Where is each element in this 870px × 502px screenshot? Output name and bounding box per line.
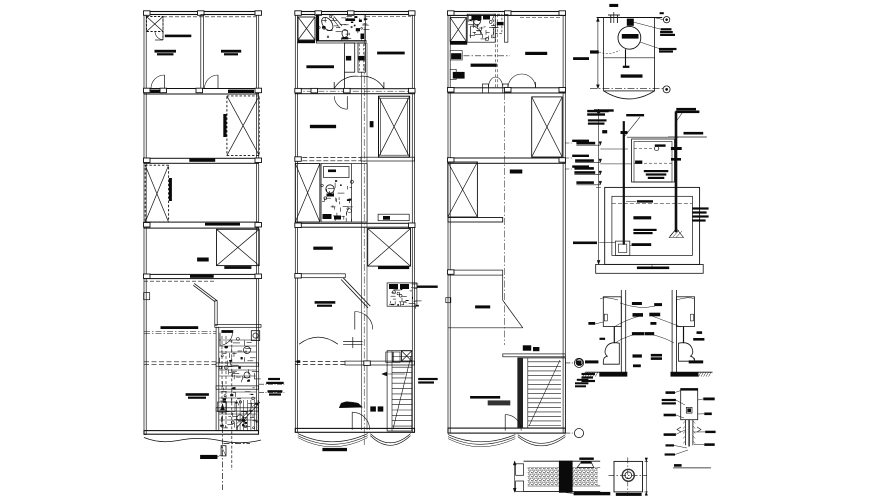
plan 3 ref circle bottom	[565, 429, 583, 438]
plan 2 outer walls	[295, 12, 414, 433]
plan 3 wall band 1	[448, 88, 566, 94]
plan 1 wall band 4	[144, 274, 262, 279]
tinaco float ball	[618, 26, 641, 49]
registro plan circle	[622, 469, 634, 481]
plan 3 roof terrace lines	[448, 275, 523, 328]
tinaco ref circle top	[654, 17, 670, 23]
wall section speckle hatch right	[573, 468, 598, 486]
tinaco valve on top	[627, 19, 634, 26]
cistern dim line	[596, 109, 601, 264]
plan 2 left wall tick	[297, 360, 301, 363]
plan 2 corridor verticals	[361, 14, 367, 445]
cistern bottom-left label	[573, 242, 615, 245]
plan 1 outer walls	[144, 12, 259, 435]
cistern left pipe	[623, 121, 625, 245]
plan 2 duct 2	[358, 43, 366, 72]
plan 1 left x-box	[145, 165, 168, 222]
plan 1 2pl label	[197, 258, 209, 262]
plan 1 right outside label 1	[259, 378, 284, 384]
plan 1 plumbing cluster	[219, 336, 261, 431]
plan 2 left room2 label	[310, 125, 336, 128]
plan 1 service band a	[216, 363, 258, 366]
plan 3 ref circle top	[565, 358, 583, 367]
plan 1 mid dashed wall	[144, 362, 216, 365]
tinaco ja label	[609, 4, 618, 7]
plan 1 wall band 3	[144, 222, 262, 228]
plan 2 stair top boxes	[386, 352, 400, 362]
plan 3 dashed beam top right	[520, 17, 562, 19]
tinaco left label tapa	[590, 50, 620, 54]
plan 2 door arc bottom	[352, 412, 370, 430]
registro pipe down	[683, 420, 695, 447]
wall section left brackets	[513, 461, 523, 492]
plan 3 x-box right	[532, 97, 563, 157]
plan 1 water feed centerline	[221, 404, 225, 490]
plan 1 comedor dash-dot line	[144, 332, 216, 334]
plan 1 stairs bottom right	[237, 400, 261, 431]
plan 3 bath2 label	[471, 64, 497, 67]
plan 1 door recamara 1	[151, 75, 165, 89]
plan 2 bathroom outline	[316, 15, 365, 42]
cistern upper tank text	[644, 170, 669, 179]
wc left ref circle	[576, 359, 598, 366]
plan 3 bay curves left	[448, 435, 515, 447]
plan 1 acometida label	[200, 455, 221, 459]
plan 3 stair fixtures	[523, 345, 540, 351]
plan 3 stairs	[518, 358, 566, 428]
plan 2 bay label	[322, 448, 347, 451]
plan 3 wall band below x-box	[448, 218, 503, 223]
tinaco right labels	[633, 12, 675, 36]
plan 3 band2 label	[510, 170, 523, 174]
plan 2 lower-left x-box	[295, 164, 320, 223]
wc middle labels	[632, 302, 662, 367]
plan 1 right outside label 2	[259, 390, 284, 395]
plan 2 wall band 1	[295, 88, 415, 93]
plan 2 corridor door arc	[334, 96, 347, 109]
tinaco lower label	[621, 74, 643, 77]
plan 1 left wall niche	[144, 293, 150, 300]
plan 2 bathroom wall thick	[316, 15, 319, 41]
plan 3 bathroom door arc	[471, 26, 483, 38]
plan 1 recamara1 label	[155, 50, 177, 56]
wc left tapa label	[588, 322, 603, 325]
plan 1 closet x-box	[147, 17, 164, 32]
plan 2 balcony ledge	[378, 214, 409, 221]
plan 1 feed valve box	[221, 446, 226, 456]
plan 1 room divider wall	[201, 15, 204, 89]
plan 3 x-box bar	[450, 41, 467, 44]
wc tank box	[677, 297, 695, 327]
registro plan square	[609, 457, 648, 496]
tinaco bottom-right label	[676, 111, 700, 114]
cistern upper water dash	[634, 161, 672, 164]
plan 3 entry arch	[482, 74, 535, 93]
plan 2 top-left x-box	[298, 17, 315, 40]
plan 1 wall band 1	[144, 88, 262, 94]
tinaco tank outline	[597, 18, 663, 99]
cistern right labels	[692, 207, 708, 221]
registro arrows	[677, 427, 701, 432]
cistern right pipe	[668, 111, 707, 232]
cistern labels left column	[574, 109, 631, 185]
plan 3 corridor centerline	[504, 93, 506, 345]
cistern water level dash	[612, 203, 693, 205]
plan 2 x-box right upper	[379, 96, 410, 157]
plan 1 riser dashed pipe	[231, 340, 233, 470]
tinaco ref circle bottom	[663, 86, 670, 93]
plan 2 right outside label kitchen	[411, 286, 438, 288]
plan 3 duct dashes	[494, 14, 502, 88]
plan 2 bathroom tub	[319, 15, 335, 32]
wc bottom-left note	[575, 379, 588, 388]
plan 2 top wall columns	[295, 11, 415, 16]
cistern inner labels	[626, 200, 657, 234]
wc tank box	[603, 297, 621, 327]
plan 3 baja label	[582, 373, 596, 382]
plan 2 bathroom swing lines	[332, 17, 342, 29]
plan 1 kitchen door arc	[220, 333, 232, 345]
cistern upper tank	[627, 137, 679, 182]
wall section label	[566, 492, 610, 495]
plan 2 stairs	[387, 351, 412, 431]
plan 2 bay curves left	[298, 434, 368, 447]
cistern bottom label	[637, 265, 669, 270]
plan 1 water heater	[251, 331, 259, 341]
plan 1 x-box label below	[224, 266, 251, 269]
plan 1 kitchen door bar	[221, 330, 233, 333]
plan 1 closet door arc	[155, 32, 163, 40]
plan 3 left fixtures b	[450, 69, 464, 79]
plan 1 dashed beam under top wall	[163, 16, 256, 18]
plan 1 right x-box solid	[217, 229, 260, 265]
plan 1 balcony diagonal wall	[193, 283, 217, 302]
plan 2 bathroom bottom wall	[316, 40, 366, 43]
plan 3 outer walls	[448, 12, 565, 434]
plan 2 hall double door arcs	[334, 76, 384, 88]
plan 1 band4 label	[190, 275, 214, 278]
plan 3 wall band 3	[448, 270, 503, 275]
wc toilet profile	[603, 343, 619, 365]
registro title	[673, 464, 711, 468]
registro left labels	[662, 391, 688, 456]
plan 2 window table	[343, 337, 362, 348]
plan 1 closet wall	[162, 17, 164, 41]
registro plan label	[616, 493, 642, 496]
plan 2 lower bathroom	[321, 164, 367, 223]
wc flush pipe	[683, 327, 685, 344]
plan 2 wall band 3	[295, 223, 415, 228]
cistern outer box	[596, 187, 704, 273]
plan 3 patio label	[470, 396, 510, 405]
plan 1 balcony vertical wall	[215, 301, 217, 325]
plan 1 door recamara 2	[205, 75, 219, 89]
tinaco inner pipe	[623, 49, 630, 68]
plan 1 dashed beam line	[144, 280, 214, 282]
plan 1 shaft label vertical	[223, 114, 226, 137]
plan 3 dash leader mid	[452, 55, 510, 57]
wc wall lines	[621, 290, 625, 374]
plan 2 wall band 4	[295, 274, 346, 279]
wall section mound	[577, 461, 594, 467]
plan 1 top wall columns	[144, 11, 262, 16]
plan 1 ground wavy line	[144, 438, 261, 443]
plan 1 left shaft label vertical	[169, 178, 172, 201]
plan 3 tn label	[475, 305, 490, 308]
plan 2 stair x-box	[401, 351, 411, 361]
wall section top labels	[579, 458, 594, 460]
cistern pipe fittings	[621, 131, 682, 161]
plan 2 corridor diagonal	[341, 278, 370, 308]
plan 2 sala label	[315, 301, 336, 307]
tinaco bottom-left labels	[587, 110, 609, 116]
plan 2 room left label	[306, 65, 334, 68]
plan 3 top wall columns	[448, 11, 566, 16]
plan 2 wall band 5	[295, 361, 414, 366]
plan 1 feed branch line	[224, 443, 251, 445]
plan 1 wall band 2	[144, 158, 262, 163]
tinaco bottom dashdot	[590, 88, 663, 90]
cistern suction mound	[669, 229, 683, 238]
plan 1 cocina label	[186, 393, 209, 399]
plan 3 bay curve right	[518, 435, 566, 446]
cistern bomba label	[630, 243, 651, 246]
plan 2 left room3 label	[313, 247, 332, 250]
plan 3 outside right leaders	[565, 140, 589, 169]
wc wall lines	[672, 290, 676, 374]
tinaco water line	[604, 57, 655, 59]
plan 2 bathroom fixture right	[318, 16, 369, 42]
plan 1 service band c	[216, 408, 258, 411]
plan 1 stair shaft x-box upper right	[227, 96, 259, 155]
registro inner square	[686, 407, 692, 413]
plan 2 duct 1	[345, 43, 355, 89]
plan 3 left fixtures a	[450, 51, 462, 61]
wc pvc label	[600, 338, 606, 340]
plan 3 left x-box	[448, 162, 478, 217]
plan 3 stair room walls	[503, 354, 566, 357]
plan 3 left wall niche	[446, 298, 451, 303]
cistern float circle	[634, 144, 666, 150]
plan 3 small bar	[497, 22, 504, 25]
plan 1 service band b	[216, 386, 258, 389]
plan 3 divider wall	[505, 15, 508, 43]
plan 2 x-box dark bar	[298, 40, 316, 43]
plan 1 recamara2 label	[221, 50, 241, 56]
wall section speckle hatch left	[528, 468, 559, 486]
plan 1 service block left wall	[216, 327, 219, 430]
wc leader curves	[600, 298, 694, 343]
wc floor slab	[583, 372, 628, 376]
plan 2 x-box right lower	[368, 229, 411, 267]
plan 1 band3 label	[205, 223, 240, 226]
tinaco dim line left	[596, 18, 599, 89]
registro right labels	[694, 398, 716, 446]
plan 2 dark squares	[370, 406, 383, 411]
plan 2 garage blob	[339, 402, 362, 408]
plan 3 top-left x-box	[450, 18, 466, 42]
plan 1 comedor label	[161, 326, 199, 329]
cistern top labels	[624, 108, 703, 137]
plan 2 door arc lower	[355, 312, 373, 330]
wall section detail band	[524, 461, 601, 491]
plan 2 shaft blob	[370, 121, 374, 127]
registro box	[681, 389, 698, 420]
plan 1 band2 label	[189, 159, 215, 162]
plan 2 bay curve right	[370, 434, 410, 446]
plan 2 stair arrow	[382, 372, 405, 376]
plan 2 bathroom wc	[342, 30, 349, 40]
plan 2 kitchen cluster	[387, 283, 422, 309]
plan 2 dashed beam top right	[366, 16, 411, 18]
plan 2 x-box bar below	[378, 266, 409, 269]
plan 3 door arc bottom	[505, 415, 521, 431]
wc floor slab	[671, 372, 713, 376]
plan 1 balcony bottom wall	[215, 325, 261, 328]
plan 3 outside right label top	[573, 57, 589, 60]
plan 3 bathroom cluster	[467, 14, 499, 42]
wc flush pipe	[613, 327, 615, 344]
cistern pump	[615, 241, 629, 255]
wc right labels	[689, 331, 705, 363]
plan 2 wall band 2	[295, 157, 415, 162]
plan 2 right outside label stairs	[418, 378, 438, 384]
plan 1 closet label	[165, 35, 192, 38]
plan 3 wall band 2	[448, 158, 566, 164]
plan 2 bathroom sink	[345, 18, 355, 21]
wall section black column	[559, 461, 573, 493]
wc toilet profile	[679, 343, 695, 362]
plan 2 living arch	[299, 337, 338, 344]
plan 2 room right label	[377, 52, 405, 55]
plan 1 stair boxes	[217, 402, 235, 412]
tinaco vent pipe	[608, 12, 620, 23]
registro plan ticks	[645, 458, 649, 496]
tinaco right labels 2	[640, 42, 677, 53]
plan 3 room right label	[525, 52, 547, 55]
